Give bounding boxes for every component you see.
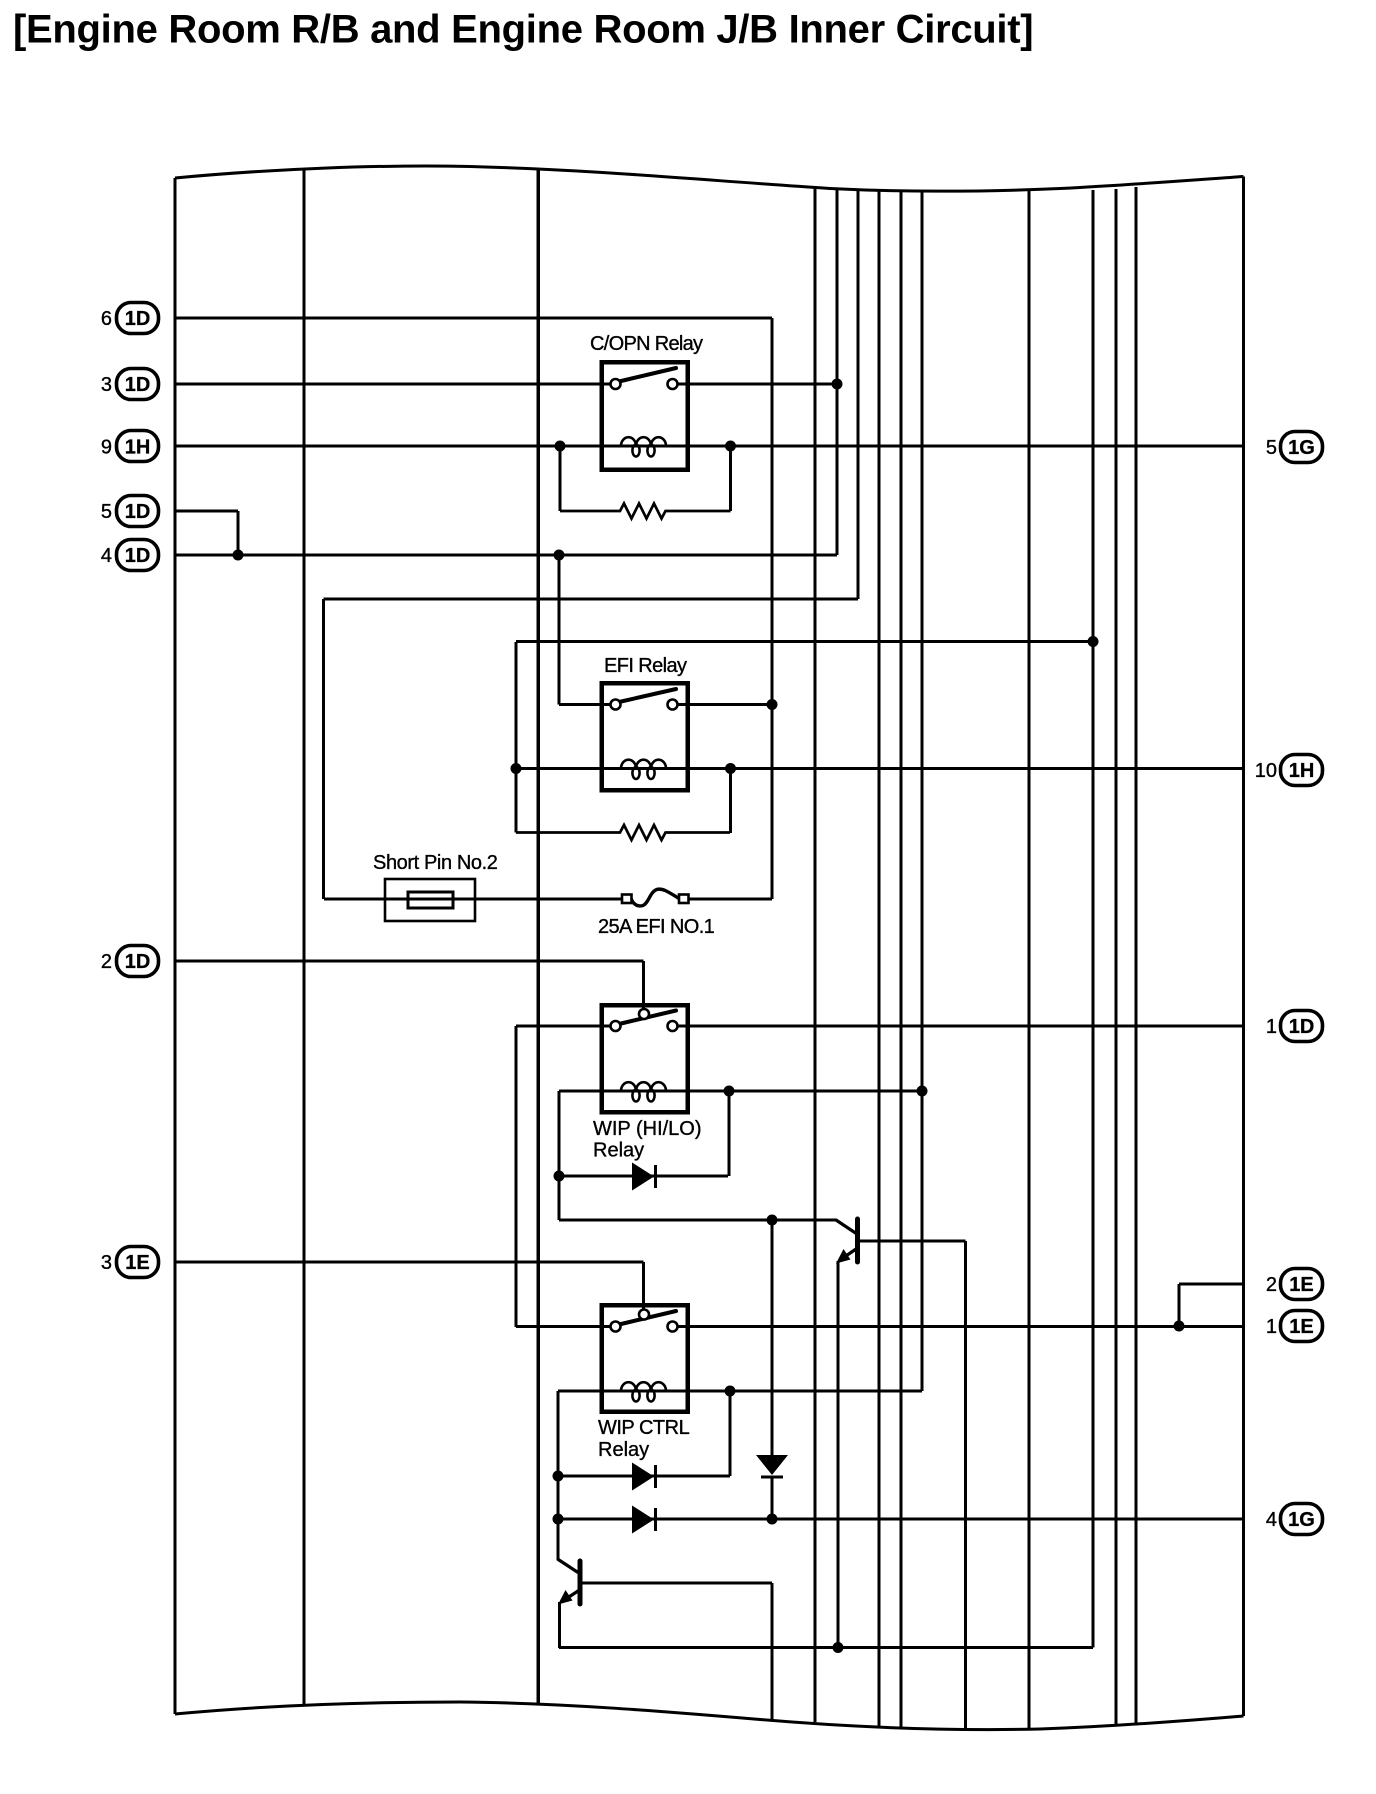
svg-text:WIP CTRL: WIP CTRL <box>598 1417 690 1439</box>
svg-text:3: 3 <box>101 1252 112 1274</box>
svg-text:10: 10 <box>1255 760 1277 782</box>
svg-text:3: 3 <box>101 374 112 396</box>
svg-text:2: 2 <box>101 951 112 973</box>
svg-text:1E: 1E <box>1289 1274 1313 1296</box>
svg-text:6: 6 <box>101 308 112 330</box>
svg-text:1E: 1E <box>1289 1316 1313 1338</box>
svg-text:1D: 1D <box>125 545 151 567</box>
svg-text:Relay: Relay <box>598 1439 649 1461</box>
svg-text:Short Pin No.2: Short Pin No.2 <box>373 852 498 874</box>
svg-text:1: 1 <box>1266 1316 1277 1338</box>
svg-text:1D: 1D <box>125 374 151 396</box>
svg-text:4: 4 <box>101 545 112 567</box>
svg-text:1D: 1D <box>125 951 151 973</box>
svg-text:1G: 1G <box>1288 1509 1315 1531</box>
svg-text:5: 5 <box>101 501 112 523</box>
svg-text:1D: 1D <box>1289 1016 1315 1038</box>
svg-text:9: 9 <box>101 436 112 458</box>
svg-text:1G: 1G <box>1288 437 1315 459</box>
svg-text:4: 4 <box>1266 1509 1277 1531</box>
svg-text:1E: 1E <box>125 1252 149 1274</box>
svg-text:1D: 1D <box>125 308 151 330</box>
svg-text:WIP (HI/LO): WIP (HI/LO) <box>593 1118 702 1140</box>
svg-text:[Engine Room R/B and Engine Ro: [Engine Room R/B and Engine Room J/B Inn… <box>13 8 1033 52</box>
svg-text:1H: 1H <box>1289 760 1315 782</box>
svg-text:C/OPN Relay: C/OPN Relay <box>590 333 703 355</box>
svg-text:2: 2 <box>1266 1274 1277 1296</box>
svg-text:1: 1 <box>1266 1016 1277 1038</box>
svg-text:EFI Relay: EFI Relay <box>604 655 687 677</box>
svg-text:5: 5 <box>1266 437 1277 459</box>
svg-text:25A EFI NO.1: 25A EFI NO.1 <box>598 916 715 938</box>
svg-text:Relay: Relay <box>593 1140 644 1162</box>
svg-text:1D: 1D <box>125 501 151 523</box>
svg-text:1H: 1H <box>125 436 151 458</box>
